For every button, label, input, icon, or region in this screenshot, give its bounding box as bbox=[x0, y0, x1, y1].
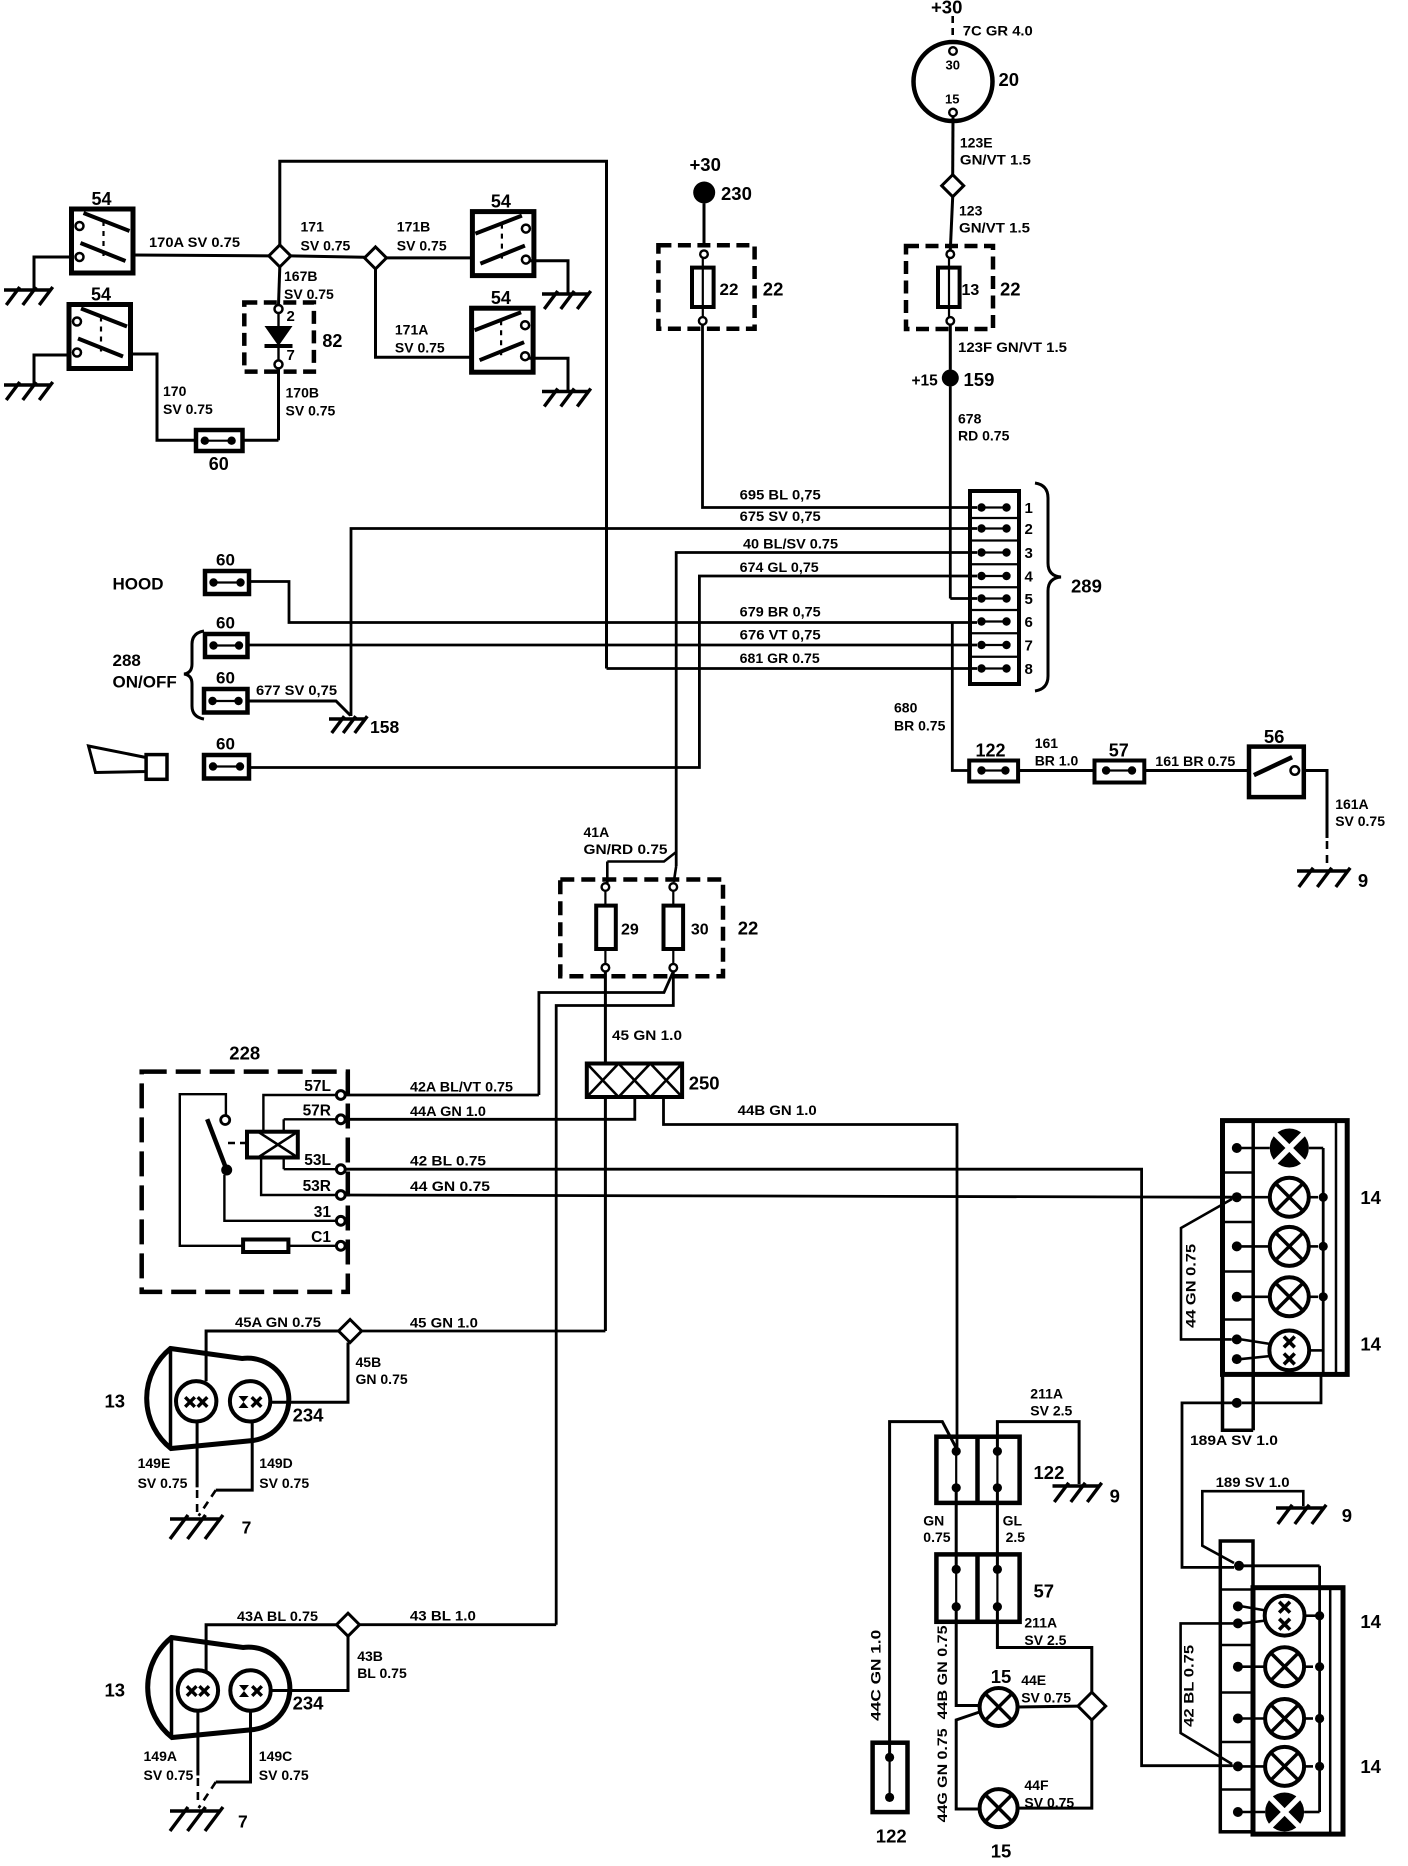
lamp 14-E' (dual) bbox=[1242, 1596, 1320, 1636]
svg-text:230: 230 bbox=[721, 183, 752, 204]
fuse block 122 (2-pole) bbox=[936, 1437, 1064, 1503]
wire 42 BL branch (to 1b) bbox=[1181, 1623, 1234, 1764]
svg-text:GN/VT 1.5: GN/VT 1.5 bbox=[959, 220, 1030, 236]
svg-text:22: 22 bbox=[763, 279, 784, 300]
junction diamond 43 bbox=[337, 1613, 360, 1636]
svg-text:159: 159 bbox=[964, 369, 995, 390]
junction diamond 44 bbox=[1078, 1692, 1106, 1720]
svg-text:7C GR 4.0: 7C GR 4.0 bbox=[963, 23, 1033, 39]
wire 45 GN 1.0 (fuse 29 out) bbox=[605, 972, 682, 1064]
svg-text:211A: 211A bbox=[1024, 1615, 1057, 1631]
svg-text:9: 9 bbox=[1110, 1486, 1120, 1507]
wire 211A SV 2.5 lower bbox=[997, 1607, 1091, 1693]
svg-text:44A GN 1.0: 44A GN 1.0 bbox=[410, 1103, 486, 1119]
wire 161 BR 0.75 bbox=[1144, 753, 1249, 771]
wire 678 RD 0.75 bbox=[950, 387, 1009, 599]
svg-text:RD 0.75: RD 0.75 bbox=[958, 428, 1010, 444]
svg-text:44C GN 1.0: 44C GN 1.0 bbox=[868, 1630, 884, 1721]
svg-text:54: 54 bbox=[91, 285, 111, 305]
svg-text:45 GN 1.0: 45 GN 1.0 bbox=[612, 1027, 682, 1043]
svg-text:44 GN 0.75: 44 GN 0.75 bbox=[1183, 1244, 1199, 1328]
junction diamond 45 bbox=[339, 1320, 362, 1343]
svg-text:42 BL 0.75: 42 BL 0.75 bbox=[410, 1153, 486, 1169]
wire 45A GN 0.75 bbox=[206, 1314, 339, 1381]
svg-text:1: 1 bbox=[1025, 500, 1033, 517]
svg-text:171: 171 bbox=[301, 219, 325, 235]
svg-text:189 SV 1.0: 189 SV 1.0 bbox=[1216, 1474, 1290, 1490]
lamp 14-B' bbox=[1242, 1647, 1313, 1686]
cluster upper ground bus bbox=[1242, 1148, 1328, 1403]
svg-text:288: 288 bbox=[113, 651, 141, 670]
connector 60 on/off A bbox=[205, 614, 248, 658]
svg-text:44B GN 0.75: 44B GN 0.75 bbox=[934, 1625, 950, 1719]
lamp 14-D bbox=[1241, 1277, 1318, 1316]
svg-text:13: 13 bbox=[962, 282, 980, 299]
lamp 14-B bbox=[1241, 1178, 1318, 1217]
svg-text:60: 60 bbox=[216, 669, 235, 688]
svg-text:40 BL/SV 0.75: 40 BL/SV 0.75 bbox=[743, 536, 838, 552]
svg-text:57: 57 bbox=[1034, 1581, 1055, 1602]
cluster upper cell dividers bbox=[1223, 1173, 1254, 1375]
wire 149D SV 0.75 bbox=[199, 1422, 310, 1516]
svg-text:13: 13 bbox=[105, 1680, 126, 1701]
wire 43A BL 0.75 bbox=[206, 1608, 336, 1671]
svg-text:149A: 149A bbox=[144, 1748, 177, 1764]
wire 189 SV 1.0 bbox=[1202, 1474, 1303, 1563]
wire 170B lower run bbox=[243, 439, 279, 442]
relay 228 coil bbox=[247, 1132, 298, 1158]
svg-text:+30: +30 bbox=[931, 0, 962, 18]
svg-text:15: 15 bbox=[991, 1841, 1012, 1862]
svg-text:54: 54 bbox=[491, 192, 511, 212]
svg-text:0.75: 0.75 bbox=[923, 1529, 950, 1545]
wire GL 2.5 bbox=[997, 1488, 1025, 1570]
connector 60 hood bbox=[205, 551, 249, 595]
wire 43 riser from fuse 30 bbox=[556, 972, 673, 1625]
svg-text:9: 9 bbox=[1358, 870, 1368, 891]
svg-text:7: 7 bbox=[238, 1812, 248, 1832]
wire 680 BR 0.75 bbox=[894, 623, 969, 771]
wire 42A BL/VT 0.75 bbox=[345, 1079, 539, 1096]
svg-text:7: 7 bbox=[242, 1518, 252, 1538]
svg-text:SV 0.75: SV 0.75 bbox=[397, 238, 447, 254]
svg-text:22: 22 bbox=[720, 280, 739, 299]
connector 60 (between S2 and diode) bbox=[196, 430, 243, 474]
svg-text:680: 680 bbox=[894, 700, 918, 716]
svg-text:681 GR 0.75: 681 GR 0.75 bbox=[740, 650, 820, 666]
svg-text:3: 3 bbox=[1025, 545, 1033, 562]
svg-text:GL: GL bbox=[1003, 1513, 1023, 1529]
supply +30 (top) bbox=[931, 0, 962, 18]
wire 149E SV 0.75 bbox=[138, 1422, 198, 1515]
svg-text:123: 123 bbox=[959, 203, 983, 219]
wire 171 SV 0.75 label bbox=[301, 219, 351, 254]
wire GN 0.75 bbox=[923, 1488, 956, 1570]
svg-text:149E: 149E bbox=[138, 1455, 171, 1471]
svg-text:695 BL 0,75: 695 BL 0,75 bbox=[740, 487, 821, 503]
svg-text:22: 22 bbox=[1000, 279, 1021, 300]
svg-text:211A: 211A bbox=[1030, 1386, 1063, 1402]
fog lamp 13 lower housing bbox=[105, 1638, 290, 1738]
switch 56 bbox=[1249, 726, 1304, 797]
wire 43 BL 1.0 to diamond bbox=[360, 1608, 557, 1625]
ground for S3 bbox=[529, 261, 591, 309]
relay 228 pins bbox=[303, 1078, 346, 1250]
svg-text:14: 14 bbox=[1360, 1187, 1381, 1208]
ground for S2 bbox=[4, 355, 69, 400]
fog lamp 13 upper housing bbox=[105, 1349, 289, 1449]
wire 44 GN 0.75 bbox=[345, 1178, 1233, 1197]
svg-text:170: 170 bbox=[163, 383, 187, 399]
wire 44G GN 0.75 bbox=[934, 1712, 981, 1823]
svg-text:45 GN 1.0: 45 GN 1.0 bbox=[410, 1315, 478, 1331]
lamp 14-D' bbox=[1242, 1747, 1313, 1786]
wire 123F GN/VT 1.5 bbox=[950, 325, 1067, 370]
node 159 (+15) bbox=[912, 369, 995, 390]
svg-text:SV 0.75: SV 0.75 bbox=[1335, 813, 1385, 829]
svg-text:167B: 167B bbox=[284, 268, 317, 284]
svg-text:250: 250 bbox=[689, 1073, 720, 1094]
ground for S4 bbox=[529, 358, 591, 406]
wire 123E GN/VT 1.5 bbox=[953, 116, 1031, 174]
svg-text:161A: 161A bbox=[1335, 796, 1368, 812]
cluster lower cell dividers bbox=[1220, 1590, 1253, 1790]
switch S3 (54) door contact bbox=[472, 192, 534, 276]
svg-text:2: 2 bbox=[287, 308, 295, 325]
wire 675 SV 0.75 / ground 158 riser bbox=[351, 508, 977, 716]
svg-text:BR 0.75: BR 0.75 bbox=[894, 718, 946, 734]
junction diamond 171 bbox=[269, 245, 291, 267]
wire 170A SV 0.75 bbox=[133, 234, 269, 256]
wire 171A SV 0.75 bbox=[376, 269, 472, 357]
svg-text:53R: 53R bbox=[303, 1178, 331, 1195]
junction diamond 171B bbox=[365, 247, 387, 269]
lamp 15 (44F) bbox=[980, 1789, 1018, 1861]
svg-text:HOOD: HOOD bbox=[113, 575, 164, 594]
horn bbox=[89, 746, 168, 779]
wire diamond171 to diamond171B bbox=[291, 256, 365, 257]
svg-text:GN/VT 1.5: GN/VT 1.5 bbox=[960, 152, 1031, 168]
svg-text:14: 14 bbox=[1360, 1611, 1381, 1632]
wire 45 GN 1.0 to diamond bbox=[362, 1315, 606, 1332]
wire 674 GL 0.75 bbox=[249, 559, 977, 768]
svg-text:53L: 53L bbox=[304, 1152, 331, 1169]
supply +30 (node 230) bbox=[690, 154, 752, 204]
wire 695 BL 0.75 bbox=[703, 325, 978, 508]
svg-text:BR 1.0: BR 1.0 bbox=[1035, 753, 1079, 769]
svg-text:170A SV 0.75: 170A SV 0.75 bbox=[149, 234, 240, 250]
wire 170B SV 0.75 bbox=[279, 368, 336, 440]
svg-text:SV 0.75: SV 0.75 bbox=[144, 1767, 194, 1783]
connector 250 (crosshatch) bbox=[587, 1064, 720, 1098]
svg-text:57L: 57L bbox=[304, 1078, 331, 1095]
wire 44E to diamond bbox=[1018, 1705, 1078, 1709]
wire 44C GN 1.0 bbox=[868, 1422, 957, 1758]
svg-text:289: 289 bbox=[1071, 576, 1102, 597]
wire 40 BL/SV 0.75 bbox=[676, 536, 977, 867]
connector 289 (8-pin) bbox=[970, 491, 1034, 684]
time clock 20 bbox=[914, 42, 1020, 121]
junction diamond 123 bbox=[942, 175, 964, 197]
svg-text:60: 60 bbox=[216, 735, 235, 754]
brace 288 ON/OFF bbox=[113, 631, 205, 719]
svg-text:SV 0.75: SV 0.75 bbox=[163, 401, 213, 417]
fog lamp 13 lower bulb 149A bbox=[178, 1670, 218, 1710]
svg-text:678: 678 bbox=[958, 411, 982, 427]
svg-text:123F GN/VT 1.5: 123F GN/VT 1.5 bbox=[958, 339, 1067, 355]
lamp 15 (44E) bbox=[980, 1666, 1072, 1726]
svg-text:SV 0.75: SV 0.75 bbox=[259, 1767, 309, 1783]
svg-text:43A BL 0.75: 43A BL 0.75 bbox=[237, 1608, 318, 1624]
ground 9 (cluster) bbox=[1276, 1505, 1352, 1526]
wire 43B BL 0.75 bbox=[271, 1636, 407, 1690]
wire 230 to fuse 22 bbox=[703, 204, 706, 248]
svg-text:15: 15 bbox=[991, 1666, 1012, 1687]
connector 122 (single) bbox=[873, 1743, 908, 1847]
fog lamp 13 lower bulb 149C bbox=[230, 1670, 324, 1713]
svg-text:+30: +30 bbox=[690, 154, 721, 175]
wire 171B SV 0.75 bbox=[387, 219, 473, 258]
svg-text:45A GN 0.75: 45A GN 0.75 bbox=[235, 1314, 321, 1330]
wire 189A SV 1.0 bbox=[1182, 1403, 1278, 1568]
diode unit 82 (dashed box) bbox=[244, 303, 342, 372]
wire 42 BL 0.75 bbox=[345, 1153, 1233, 1766]
svg-text:56: 56 bbox=[1264, 726, 1285, 747]
switch S2 (54) door contact bbox=[69, 285, 131, 369]
wire top loop (to 681 GR) bbox=[280, 161, 607, 668]
svg-text:60: 60 bbox=[209, 454, 229, 474]
lamp 14-C' bbox=[1242, 1699, 1313, 1738]
cluster upper pins bbox=[1232, 1143, 1242, 1408]
lamp 14-A' (dark) bbox=[1242, 1793, 1320, 1832]
svg-text:22: 22 bbox=[738, 918, 759, 939]
svg-text:14: 14 bbox=[1360, 1334, 1381, 1355]
svg-text:44F: 44F bbox=[1024, 1777, 1049, 1793]
svg-text:29: 29 bbox=[621, 922, 639, 939]
svg-text:45B: 45B bbox=[356, 1354, 382, 1370]
wire 44B GN 1.0 bbox=[664, 1097, 958, 1449]
svg-text:234: 234 bbox=[293, 1693, 325, 1714]
lamp cluster lower housing bbox=[1220, 1541, 1381, 1834]
svg-text:57R: 57R bbox=[303, 1102, 331, 1119]
svg-text:149C: 149C bbox=[259, 1748, 292, 1764]
svg-text:2: 2 bbox=[1025, 521, 1033, 538]
wire 170 SV 0.75 bbox=[131, 354, 214, 440]
wire 44B GN 0.75 to lamp bbox=[934, 1607, 980, 1720]
svg-text:15: 15 bbox=[945, 92, 959, 107]
svg-text:SV 0.75: SV 0.75 bbox=[138, 1475, 188, 1491]
fuse 57 (in-line) bbox=[1095, 741, 1145, 783]
svg-text:54: 54 bbox=[491, 288, 511, 308]
wire 7C GR 4.0 (dashed) bbox=[953, 16, 1033, 44]
switch S4 (54) door contact bbox=[472, 288, 533, 372]
svg-text:SV 2.5: SV 2.5 bbox=[1024, 1632, 1066, 1648]
svg-text:SV 0.75: SV 0.75 bbox=[286, 403, 336, 419]
svg-text:SV 0.75: SV 0.75 bbox=[395, 340, 445, 356]
svg-text:171B: 171B bbox=[397, 219, 430, 235]
svg-text:SV 0.75: SV 0.75 bbox=[1021, 1690, 1071, 1706]
svg-text:122: 122 bbox=[1034, 1462, 1065, 1483]
svg-text:161 BR 0.75: 161 BR 0.75 bbox=[1155, 753, 1235, 769]
svg-text:9: 9 bbox=[1342, 1505, 1352, 1526]
svg-text:189A SV 1.0: 189A SV 1.0 bbox=[1190, 1432, 1278, 1448]
svg-text:14: 14 bbox=[1360, 1756, 1381, 1777]
svg-text:44G GN 0.75: 44G GN 0.75 bbox=[934, 1728, 950, 1822]
fog lamp 13 upper bulb 149D bbox=[230, 1381, 324, 1425]
label HOOD bbox=[113, 575, 164, 594]
svg-text:149D: 149D bbox=[259, 1455, 292, 1471]
svg-text:171A: 171A bbox=[395, 322, 428, 338]
svg-text:ON/OFF: ON/OFF bbox=[113, 673, 177, 692]
svg-text:5: 5 bbox=[1025, 591, 1033, 608]
lamp 14-A (dark) bbox=[1241, 1129, 1323, 1168]
wire 167B SV 0.75 bbox=[279, 267, 335, 305]
svg-text:677 SV 0,75: 677 SV 0,75 bbox=[256, 682, 337, 698]
svg-text:SV 0.75: SV 0.75 bbox=[1024, 1795, 1074, 1811]
ground 9 (switch 56) bbox=[1297, 868, 1368, 891]
svg-text:43 BL 1.0: 43 BL 1.0 bbox=[410, 1608, 476, 1624]
ground 9 (211A) bbox=[1053, 1483, 1120, 1507]
ground 158 bbox=[329, 716, 399, 737]
svg-text:60: 60 bbox=[216, 551, 235, 570]
fuse box 22 right (dashed) with fuse 13 bbox=[906, 246, 1021, 329]
wire 676 VT 0.75 bbox=[248, 627, 978, 646]
svg-text:31: 31 bbox=[314, 1204, 332, 1221]
fuse 30 bbox=[664, 883, 709, 971]
cluster lower pins bbox=[1233, 1561, 1244, 1817]
fuse 122 (in-line) bbox=[969, 741, 1018, 782]
svg-text:44B GN 1.0: 44B GN 1.0 bbox=[738, 1102, 817, 1118]
connector 60 horn bbox=[204, 735, 249, 779]
ground 7 upper bbox=[170, 1515, 251, 1539]
wire 45B GN 0.75 bbox=[271, 1343, 408, 1403]
ground for S1 bbox=[4, 257, 72, 305]
svg-text:679 BR 0,75: 679 BR 0,75 bbox=[740, 604, 821, 620]
ground 7 lower bbox=[170, 1807, 248, 1832]
svg-text:82: 82 bbox=[322, 331, 342, 351]
relay 228 (dashed box) bbox=[142, 1043, 348, 1292]
cluster lower ground bus bbox=[1244, 1566, 1325, 1812]
svg-text:54: 54 bbox=[92, 189, 112, 209]
relay 228 resistor bbox=[243, 1240, 288, 1253]
relay 228 switch arm bbox=[207, 1116, 246, 1176]
svg-text:44 GN 0.75: 44 GN 0.75 bbox=[410, 1178, 490, 1194]
fuse box 22 left (dashed) bbox=[658, 245, 783, 329]
wire 149A SV 0.75 bbox=[144, 1711, 198, 1806]
wire 161 BR 1.0 bbox=[1018, 735, 1094, 771]
svg-text:170B: 170B bbox=[286, 385, 319, 401]
wire 44 GN branch (to 5a) bbox=[1181, 1199, 1232, 1339]
svg-text:42A BL/VT 0.75: 42A BL/VT 0.75 bbox=[410, 1079, 513, 1095]
svg-text:122: 122 bbox=[876, 1826, 907, 1847]
svg-text:676 VT 0,75: 676 VT 0,75 bbox=[740, 627, 821, 643]
wire 123 GN/VT 1.5 bbox=[950, 197, 1030, 251]
svg-text:2.5: 2.5 bbox=[1006, 1529, 1026, 1545]
wire 45 GN below 250 bbox=[604, 1097, 607, 1331]
wire 41A GN/RD 0.75 bbox=[584, 824, 677, 883]
svg-text:30: 30 bbox=[691, 922, 709, 939]
brace 289 bbox=[1035, 483, 1102, 691]
svg-text:228: 228 bbox=[229, 1043, 260, 1064]
lamp 14-C bbox=[1241, 1227, 1318, 1266]
svg-text:43B: 43B bbox=[357, 1648, 383, 1664]
wire 149C SV 0.75 bbox=[199, 1711, 309, 1808]
svg-text:123E: 123E bbox=[960, 135, 993, 151]
svg-text:BL 0.75: BL 0.75 bbox=[357, 1665, 407, 1681]
wire 42A riser from fuse 30 bbox=[539, 972, 673, 1096]
svg-text:234: 234 bbox=[293, 1405, 325, 1426]
svg-text:SV 2.5: SV 2.5 bbox=[1030, 1403, 1072, 1419]
switch S1 (54) door contact bbox=[72, 189, 134, 273]
wire 678 to pin 5 bbox=[950, 597, 977, 600]
wire 681 GR 0.75 bbox=[607, 650, 978, 669]
svg-text:SV 0.75: SV 0.75 bbox=[301, 238, 351, 254]
wire 44A GN 1.0 bbox=[345, 1097, 635, 1119]
connector 60 on/off B bbox=[204, 669, 248, 713]
relay 228 internal wiring bbox=[180, 1094, 337, 1246]
svg-text:60: 60 bbox=[216, 614, 235, 633]
svg-text:122: 122 bbox=[976, 741, 1006, 761]
diode D1 bbox=[265, 313, 293, 360]
svg-text:+15: +15 bbox=[912, 373, 939, 390]
svg-text:57: 57 bbox=[1109, 741, 1129, 761]
fuse 29 bbox=[596, 883, 639, 971]
svg-text:7: 7 bbox=[1025, 638, 1033, 655]
svg-text:41A: 41A bbox=[584, 824, 610, 840]
fog lamp 13 upper bulb 149E bbox=[176, 1381, 216, 1421]
svg-text:30: 30 bbox=[946, 58, 960, 73]
svg-text:674 GL 0,75: 674 GL 0,75 bbox=[740, 559, 819, 575]
fuse box 22 (29/30, dashed) bbox=[560, 880, 758, 977]
svg-text:6: 6 bbox=[1025, 614, 1033, 631]
wire 679 BR 0.75 (hood) bbox=[249, 582, 977, 623]
svg-text:20: 20 bbox=[999, 69, 1020, 90]
lamp 14-E (dual) bbox=[1241, 1331, 1323, 1371]
wire 677 SV 0.75 bbox=[248, 682, 351, 716]
svg-text:13: 13 bbox=[105, 1391, 126, 1412]
svg-text:GN 0.75: GN 0.75 bbox=[356, 1371, 408, 1387]
svg-text:8: 8 bbox=[1025, 661, 1033, 678]
wire 44F SV 0.75 drop bbox=[1018, 1720, 1092, 1811]
lamp cluster upper housing bbox=[1223, 1121, 1382, 1431]
svg-text:7: 7 bbox=[287, 347, 295, 364]
svg-text:42 BL 0.75: 42 BL 0.75 bbox=[1181, 1645, 1197, 1727]
wire 211A SV 2.5 upper bbox=[997, 1386, 1079, 1485]
svg-text:SV 0.75: SV 0.75 bbox=[259, 1475, 309, 1491]
svg-text:4: 4 bbox=[1025, 569, 1034, 586]
svg-text:675 SV 0,75: 675 SV 0,75 bbox=[740, 508, 821, 524]
svg-text:158: 158 bbox=[370, 717, 399, 737]
wire 161A SV 0.75 bbox=[1304, 771, 1385, 867]
svg-text:GN/RD 0.75: GN/RD 0.75 bbox=[584, 841, 668, 857]
svg-text:44E: 44E bbox=[1021, 1672, 1046, 1688]
svg-text:C1: C1 bbox=[311, 1229, 331, 1246]
svg-text:GN: GN bbox=[923, 1513, 944, 1529]
svg-text:161: 161 bbox=[1035, 735, 1059, 751]
svg-text:SV 0.75: SV 0.75 bbox=[284, 286, 334, 302]
fuse block 57 (2-pole) bbox=[936, 1554, 1054, 1621]
